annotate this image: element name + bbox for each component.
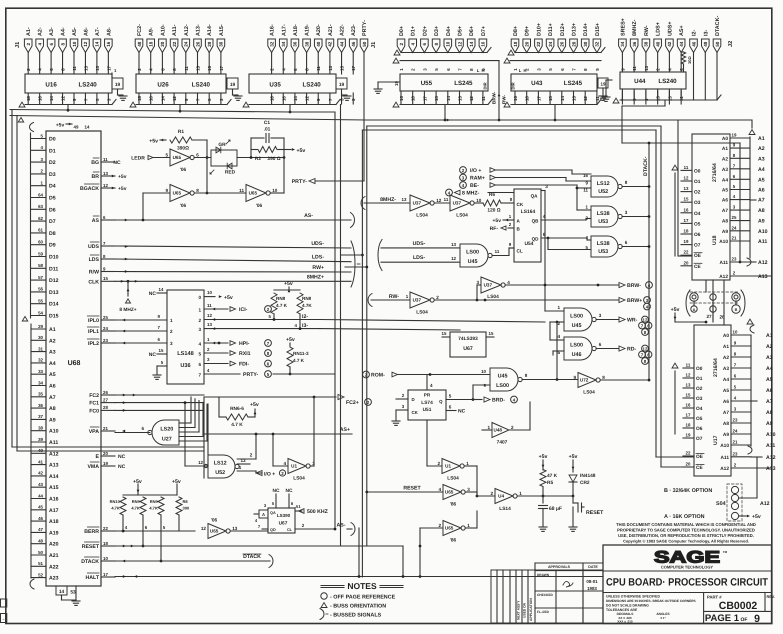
U35 bottom pin numbers and wires bbox=[270, 93, 357, 104]
svg-text:O7: O7 bbox=[694, 243, 701, 249]
inverter U37c LS04 bbox=[476, 277, 510, 300]
svg-text:20: 20 bbox=[160, 41, 165, 47]
connector pin D3+ (8) bbox=[432, 26, 440, 53]
gate U45a LS00 bbox=[460, 244, 492, 267]
svg-text:64: 64 bbox=[38, 192, 43, 197]
CPU pin VMA NC bbox=[118, 464, 126, 470]
svg-text:2: 2 bbox=[557, 321, 560, 326]
connector pin A10- (20) bbox=[159, 24, 167, 74]
wire LDS- line bbox=[115, 255, 351, 262]
svg-text:A7: A7 bbox=[723, 410, 729, 416]
svg-text:17: 17 bbox=[686, 413, 691, 418]
CPU pin R/W bbox=[89, 266, 115, 275]
svg-text:6: 6 bbox=[196, 153, 199, 158]
svg-text:8MHZ-: 8MHZ- bbox=[632, 19, 638, 36]
option label B 32/64K bbox=[664, 486, 739, 494]
svg-text:D2: D2 bbox=[49, 160, 56, 166]
svg-text:19: 19 bbox=[686, 433, 691, 438]
U36 pin 5 ground bbox=[153, 360, 167, 379]
svg-text:13: 13 bbox=[240, 458, 246, 463]
svg-text:D15+: D15+ bbox=[595, 23, 601, 36]
bus under U35 bbox=[249, 100, 340, 105]
svg-text:A1: A1 bbox=[722, 146, 728, 152]
connector pin D7+ (16) bbox=[479, 26, 487, 53]
svg-text:APPROVALS: APPROVALS bbox=[548, 565, 571, 569]
svg-text:OF: OF bbox=[741, 617, 748, 623]
svg-text:A2: A2 bbox=[723, 355, 729, 361]
svg-text:PAGE 1: PAGE 1 bbox=[705, 613, 740, 624]
svg-text:LS390: LS390 bbox=[277, 513, 291, 518]
svg-text:15: 15 bbox=[442, 331, 447, 336]
svg-text:13: 13 bbox=[196, 65, 201, 70]
svg-text:12: 12 bbox=[305, 96, 310, 101]
svg-text:4: 4 bbox=[283, 461, 286, 466]
svg-text:6: 6 bbox=[449, 405, 452, 410]
U54 pin CL bbox=[509, 242, 514, 248]
svg-text:44: 44 bbox=[679, 41, 684, 47]
svg-text:U37: U37 bbox=[413, 298, 422, 303]
svg-text:2: 2 bbox=[438, 523, 441, 528]
resistor RN6-6 bbox=[219, 397, 259, 428]
svg-text:25: 25 bbox=[103, 315, 108, 320]
svg-text:FC2-: FC2- bbox=[137, 24, 143, 36]
svg-text:A8: A8 bbox=[758, 208, 765, 214]
svg-text:+5v: +5v bbox=[493, 218, 502, 224]
CPU pin BERR bbox=[84, 526, 115, 535]
svg-text:57: 57 bbox=[38, 275, 43, 280]
svg-text:UDS-: UDS- bbox=[413, 241, 426, 247]
connector pin A3- (6) bbox=[47, 27, 55, 74]
svg-text:4.7 K: 4.7 K bbox=[293, 358, 305, 363]
wire BERR line bbox=[115, 530, 195, 533]
CPU pin LDS bbox=[89, 254, 115, 263]
svg-text:A9-: A9- bbox=[149, 27, 155, 36]
svg-text:LS04: LS04 bbox=[293, 476, 305, 482]
buss orientation triangle U26 bbox=[130, 102, 136, 107]
svg-text:PROPRIETARY TO SAGE COMPUTER T: PROPRIETARY TO SAGE COMPUTER TECHNOLOGY.… bbox=[617, 528, 755, 533]
svg-text:31: 31 bbox=[38, 346, 43, 351]
svg-text:63: 63 bbox=[38, 204, 43, 209]
svg-text:7: 7 bbox=[198, 373, 201, 378]
inverter U1b LS04 bbox=[437, 459, 469, 482]
U17 pin 15 O3 bbox=[683, 393, 703, 403]
wire bottom long line 1 bbox=[0, 0, 1, 1]
svg-text:27: 27 bbox=[706, 314, 712, 319]
U17 pin 6 A4 bbox=[723, 374, 751, 384]
bus line y120 with arrow bbox=[10, 116, 752, 129]
connector pin A8- (16) bbox=[105, 27, 113, 74]
svg-text:D6+: D6+ bbox=[469, 26, 475, 36]
svg-text:RF-: RF- bbox=[490, 226, 499, 232]
U36 pin 15 NC bbox=[149, 348, 167, 358]
CPU pin AS bbox=[92, 215, 115, 224]
confidentiality notice bbox=[616, 522, 756, 544]
chip U44 LS240 bbox=[620, 72, 686, 89]
svg-text:D: D bbox=[412, 397, 415, 402]
svg-text:LDS+: LDS+ bbox=[656, 22, 662, 36]
svg-text:D14+: D14+ bbox=[583, 23, 589, 36]
svg-text:25: 25 bbox=[732, 215, 737, 220]
svg-text:DO NOT SCALE DRAWING: DO NOT SCALE DRAWING bbox=[606, 604, 649, 608]
svg-text:RAM+: RAM+ bbox=[470, 176, 485, 182]
svg-text:U52: U52 bbox=[215, 470, 225, 476]
svg-text:UNLESS OTHERWISE SPECIFIED: UNLESS OTHERWISE SPECIFIED bbox=[606, 595, 661, 599]
inverter U65f '06 at BERR bbox=[201, 518, 238, 539]
svg-text:CPU BOARD· PROCESSOR CIRCUIT: CPU BOARD· PROCESSOR CIRCUIT bbox=[606, 577, 768, 589]
svg-text:22: 22 bbox=[686, 451, 691, 456]
svg-text:13: 13 bbox=[686, 383, 691, 388]
svg-text:41: 41 bbox=[38, 459, 43, 464]
svg-text:26: 26 bbox=[103, 390, 108, 395]
svg-text:O7: O7 bbox=[696, 436, 703, 442]
svg-text:O6: O6 bbox=[696, 426, 703, 432]
svg-text:A22-: A22- bbox=[340, 24, 346, 36]
svg-text:A19: A19 bbox=[49, 530, 59, 536]
U44 bottom pin numbers and wires bbox=[620, 89, 684, 104]
svg-text:20: 20 bbox=[684, 260, 689, 265]
svg-text:A7: A7 bbox=[49, 395, 56, 401]
wire U48 wires bbox=[482, 402, 530, 430]
svg-text:U48: U48 bbox=[494, 428, 503, 433]
buss orientation triangle U16 bbox=[19, 102, 25, 107]
svg-text:2: 2 bbox=[511, 425, 514, 430]
CPU pin A11 bbox=[31, 437, 58, 446]
svg-text:LS240: LS240 bbox=[79, 82, 98, 89]
connector pin FC2- (48) bbox=[135, 24, 143, 74]
svg-text:17: 17 bbox=[684, 218, 689, 223]
svg-text:A6: A6 bbox=[766, 388, 773, 394]
signal UDS- to U45a bbox=[341, 240, 461, 271]
wire U45a out to U54 CL bbox=[492, 248, 514, 256]
signal LDS- to U45a bbox=[345, 255, 460, 268]
svg-text:A6: A6 bbox=[49, 384, 56, 390]
svg-text:46: 46 bbox=[351, 41, 356, 47]
svg-text:14: 14 bbox=[160, 96, 165, 101]
svg-text:DTACK-: DTACK- bbox=[715, 16, 721, 36]
U52 wires pins 2 13 bbox=[237, 433, 257, 464]
wire LED to R2C1 node bbox=[237, 156, 285, 159]
svg-text:8: 8 bbox=[625, 180, 628, 185]
U36 pin 2 RXI1 bbox=[198, 347, 271, 357]
connector pin A20- (40) bbox=[314, 24, 322, 74]
svg-text:8: 8 bbox=[434, 42, 439, 45]
svg-text:A6: A6 bbox=[723, 399, 729, 405]
U17 pin 13 O2 bbox=[683, 383, 703, 393]
CPU pin D9 bbox=[31, 240, 56, 249]
svg-text:1: 1 bbox=[487, 425, 490, 430]
U27 input wires bbox=[179, 397, 207, 441]
wire U35 bus drop bbox=[289, 105, 292, 114]
svg-text:A3: A3 bbox=[766, 355, 773, 361]
svg-text:14: 14 bbox=[560, 96, 565, 101]
svg-text:2716/64: 2716/64 bbox=[713, 358, 719, 377]
svg-text:A12: A12 bbox=[760, 501, 770, 507]
svg-text:A5: A5 bbox=[722, 188, 728, 194]
svg-text:500 KHZ: 500 KHZ bbox=[307, 509, 329, 515]
CPU address bus vertical bbox=[30, 324, 34, 589]
svg-text:2: 2 bbox=[437, 461, 440, 466]
connector pin A9- (18) bbox=[147, 27, 155, 74]
svg-text:R/W: R/W bbox=[89, 270, 99, 276]
svg-text:U53: U53 bbox=[598, 249, 608, 255]
svg-text:390Ω: 390Ω bbox=[177, 146, 189, 152]
svg-text:U37: U37 bbox=[484, 283, 493, 288]
svg-text:D9: D9 bbox=[49, 243, 56, 249]
svg-text:A2: A2 bbox=[722, 156, 728, 162]
connector pin SRES+ (34) bbox=[619, 18, 627, 72]
svg-text:A22: A22 bbox=[49, 564, 59, 570]
svg-text:LS12: LS12 bbox=[214, 461, 227, 467]
U17 right bus bracket bbox=[748, 325, 757, 454]
wire U65d out bbox=[465, 492, 477, 496]
svg-text:18: 18 bbox=[137, 96, 142, 101]
U53a inputs bbox=[586, 205, 589, 221]
connector pin A13- (26) bbox=[194, 24, 202, 74]
svg-text:+5v: +5v bbox=[752, 514, 761, 520]
svg-text:A4: A4 bbox=[722, 177, 728, 183]
svg-text:50: 50 bbox=[362, 41, 367, 47]
CPU pin A6 bbox=[31, 380, 56, 389]
wire U53a out bbox=[622, 210, 650, 218]
svg-text:53: 53 bbox=[70, 590, 76, 596]
svg-text:LDS-: LDS- bbox=[312, 255, 324, 261]
svg-text:D7: D7 bbox=[49, 219, 56, 225]
option dashed box bbox=[727, 484, 742, 521]
svg-text:U37: U37 bbox=[453, 201, 462, 206]
svg-text:U18: U18 bbox=[712, 235, 718, 245]
svg-text:CK: CK bbox=[412, 410, 419, 415]
svg-text:13: 13 bbox=[572, 96, 577, 101]
svg-text:22: 22 bbox=[536, 41, 541, 47]
svg-text:U65: U65 bbox=[445, 490, 454, 495]
svg-text:A9: A9 bbox=[722, 229, 728, 235]
svg-text:120 Ω: 120 Ω bbox=[487, 208, 500, 214]
svg-text:19: 19 bbox=[339, 82, 345, 88]
svg-text:68 µF: 68 µF bbox=[549, 506, 562, 512]
svg-text:1: 1 bbox=[198, 308, 201, 313]
chip U51 LS74 bbox=[408, 390, 446, 420]
svg-text:10: 10 bbox=[272, 188, 278, 193]
svg-text:U35: U35 bbox=[269, 82, 281, 89]
svg-text:34: 34 bbox=[38, 380, 43, 385]
svg-text:VMA: VMA bbox=[87, 464, 99, 470]
svg-text:+5v: +5v bbox=[250, 402, 259, 408]
svg-text:D5: D5 bbox=[49, 196, 56, 202]
gate U53b LS38 bbox=[591, 236, 622, 257]
connector pin A16- (32) bbox=[268, 24, 276, 74]
svg-text:QA: QA bbox=[531, 194, 539, 199]
gate U52 LS12 lower bbox=[208, 455, 239, 478]
svg-text:1: 1 bbox=[466, 461, 469, 466]
gate U45b LS00 bbox=[564, 308, 596, 331]
svg-text:46: 46 bbox=[38, 516, 43, 521]
svg-text:A7-: A7- bbox=[95, 27, 101, 36]
svg-text:08-01: 08-01 bbox=[586, 579, 598, 584]
svg-text:8 MHZ-: 8 MHZ- bbox=[462, 191, 480, 197]
U46 input wires bbox=[550, 334, 564, 355]
svg-text:23: 23 bbox=[732, 257, 737, 262]
svg-text:6: 6 bbox=[198, 362, 201, 367]
wire FC2 line bbox=[115, 394, 204, 397]
buss orientation triangle U35 bbox=[243, 102, 249, 107]
svg-text:NC: NC bbox=[149, 291, 157, 297]
svg-text:U17: U17 bbox=[713, 435, 719, 445]
U18 pin 17 O5 bbox=[681, 218, 701, 228]
CPU pin DTACK bbox=[81, 556, 115, 565]
CPU pin A23 bbox=[31, 572, 59, 581]
svg-text:S04: S04 bbox=[716, 501, 726, 507]
U54 pin A +5v bbox=[493, 214, 514, 224]
bussed signal hook UDS group bbox=[351, 241, 355, 287]
signal 500 KHZ flag bbox=[295, 504, 329, 515]
svg-text:2: 2 bbox=[399, 42, 404, 45]
svg-text:A: A bbox=[262, 512, 265, 517]
U18 pin 23 A11 bbox=[719, 257, 750, 267]
wire R2C1 to +5v bbox=[284, 148, 305, 154]
svg-text:11: 11 bbox=[583, 188, 588, 193]
connector pin I2- (46) bbox=[690, 30, 698, 100]
page box bbox=[705, 613, 760, 625]
connector pin A21- (42) bbox=[326, 24, 334, 74]
svg-text:LS240: LS240 bbox=[658, 78, 677, 85]
svg-text:A17: A17 bbox=[49, 508, 59, 514]
svg-text:AS: AS bbox=[92, 218, 100, 224]
svg-text:U45: U45 bbox=[572, 323, 582, 329]
switch RESET bbox=[569, 496, 604, 531]
svg-text:O2: O2 bbox=[694, 190, 701, 196]
svg-text:A17-: A17- bbox=[281, 24, 287, 36]
U45b input wires bbox=[545, 305, 564, 340]
svg-text:BRW-: BRW- bbox=[627, 283, 641, 289]
svg-text:LS164: LS164 bbox=[521, 209, 536, 215]
svg-text:R6: R6 bbox=[489, 192, 495, 198]
svg-text:A12: A12 bbox=[766, 455, 776, 461]
svg-text:UDS-: UDS- bbox=[311, 241, 324, 247]
svg-text:36: 36 bbox=[293, 41, 298, 47]
svg-text:A9: A9 bbox=[766, 421, 773, 427]
U17 pin 9 A1 bbox=[723, 341, 751, 351]
CPU pin BG NC bbox=[113, 160, 121, 166]
CPU pin VPA bbox=[89, 426, 115, 435]
chip U26 LS240 bbox=[136, 74, 226, 93]
right vertical bus x661 to U17 CE bbox=[661, 126, 694, 467]
svg-text:RED: RED bbox=[225, 170, 236, 176]
svg-text:IPL1: IPL1 bbox=[88, 329, 99, 335]
svg-text:A21-: A21- bbox=[328, 24, 334, 36]
svg-text:A10: A10 bbox=[720, 443, 729, 449]
svg-text:RN10: RN10 bbox=[110, 499, 121, 504]
svg-text:D13+: D13+ bbox=[572, 23, 578, 36]
svg-text:TM: TM bbox=[723, 550, 728, 554]
svg-text:A14-: A14- bbox=[207, 24, 213, 36]
U18 pin 22 OE bbox=[681, 250, 702, 260]
svg-text:DIMENSIONS ARE IN INCHES. BRE: DIMENSIONS ARE IN INCHES. BREAK OUTSIDE … bbox=[606, 599, 696, 603]
svg-text:AS+: AS+ bbox=[679, 25, 685, 36]
svg-text:6: 6 bbox=[625, 240, 628, 245]
svg-text:VPA: VPA bbox=[89, 429, 100, 435]
wire RW+ line bbox=[115, 265, 351, 273]
signal flag 8MHZ- off page bbox=[446, 189, 514, 196]
wire FC0 line bbox=[115, 409, 204, 412]
svg-text:A4-: A4- bbox=[61, 27, 67, 36]
svg-text:I/O +: I/O + bbox=[470, 168, 481, 174]
svg-text:LS38: LS38 bbox=[597, 241, 610, 247]
signal RW- vertical at U43 bbox=[502, 95, 507, 104]
svg-text:DRAWN: DRAWN bbox=[537, 573, 550, 577]
svg-text:D8+: D8+ bbox=[513, 26, 519, 36]
U36 pin 4 PRTY- bbox=[198, 368, 271, 378]
svg-text:DTACK-: DTACK- bbox=[643, 156, 649, 176]
U52 top input wires bbox=[583, 173, 588, 193]
svg-text:A11: A11 bbox=[766, 443, 775, 449]
inverter U65b '06 bbox=[165, 185, 199, 210]
svg-text:3: 3 bbox=[170, 341, 173, 346]
bus above U55 upper bbox=[401, 48, 491, 53]
connector pin DTACK- (50) bbox=[713, 16, 721, 100]
CPU pin BR bbox=[92, 171, 116, 180]
tolerance notes bbox=[606, 595, 696, 624]
svg-text:A9: A9 bbox=[723, 432, 729, 438]
U44 bottom wires bbox=[622, 91, 681, 100]
bus under U43 bbox=[511, 100, 601, 105]
CPU pin A5 bbox=[31, 369, 56, 378]
svg-text:38: 38 bbox=[38, 426, 43, 431]
svg-text:13: 13 bbox=[684, 186, 689, 191]
svg-text:OE: OE bbox=[696, 454, 704, 460]
svg-text:18: 18 bbox=[103, 541, 108, 546]
svg-text:CL: CL bbox=[287, 528, 293, 532]
signal RESET label bbox=[365, 486, 443, 494]
signal FC2+ off page flag bbox=[338, 394, 371, 406]
CPU pin E NC bbox=[118, 454, 126, 460]
svg-text:O4: O4 bbox=[696, 406, 703, 412]
svg-text:48: 48 bbox=[38, 539, 43, 544]
U17 pin 16 O4 bbox=[683, 403, 703, 413]
svg-text:22: 22 bbox=[684, 250, 689, 255]
svg-text:A3: A3 bbox=[49, 350, 56, 356]
svg-text:13: 13 bbox=[458, 96, 463, 101]
svg-text:O3: O3 bbox=[694, 200, 701, 206]
svg-text:PR: PR bbox=[424, 393, 431, 398]
resistor network RN8 pullups bbox=[269, 281, 313, 330]
connector pin A5- (10) bbox=[70, 27, 78, 74]
svg-text:D6: D6 bbox=[49, 207, 56, 213]
wire RD- flag bbox=[596, 342, 652, 364]
U44 top pin numbers bbox=[620, 65, 684, 70]
svg-text:GR: GR bbox=[218, 142, 226, 148]
svg-text:6: 6 bbox=[599, 342, 602, 347]
svg-text:AS+: AS+ bbox=[340, 427, 350, 433]
svg-text:16: 16 bbox=[149, 96, 154, 101]
svg-text:A20-: A20- bbox=[316, 24, 322, 36]
svg-text:A6: A6 bbox=[722, 198, 728, 204]
U17 pin 4 A6 bbox=[723, 396, 751, 406]
svg-text:J1: J1 bbox=[15, 42, 21, 48]
svg-text:DIR: DIR bbox=[483, 82, 488, 89]
svg-text:QD: QD bbox=[270, 528, 276, 532]
revision zone box bottom-left bbox=[1, 599, 7, 607]
svg-text:6: 6 bbox=[141, 426, 144, 431]
svg-text:22: 22 bbox=[103, 526, 108, 531]
connector pin A11- (22) bbox=[170, 24, 178, 74]
CPU bottom pins 14 53 and ground bbox=[56, 586, 80, 605]
wire U43 bus drop bbox=[554, 105, 557, 122]
svg-text:BR: BR bbox=[92, 174, 100, 180]
svg-text:18: 18 bbox=[513, 41, 518, 47]
svg-text:D12: D12 bbox=[49, 278, 59, 284]
svg-text:A3: A3 bbox=[723, 366, 729, 372]
svg-text:11: 11 bbox=[495, 249, 500, 254]
